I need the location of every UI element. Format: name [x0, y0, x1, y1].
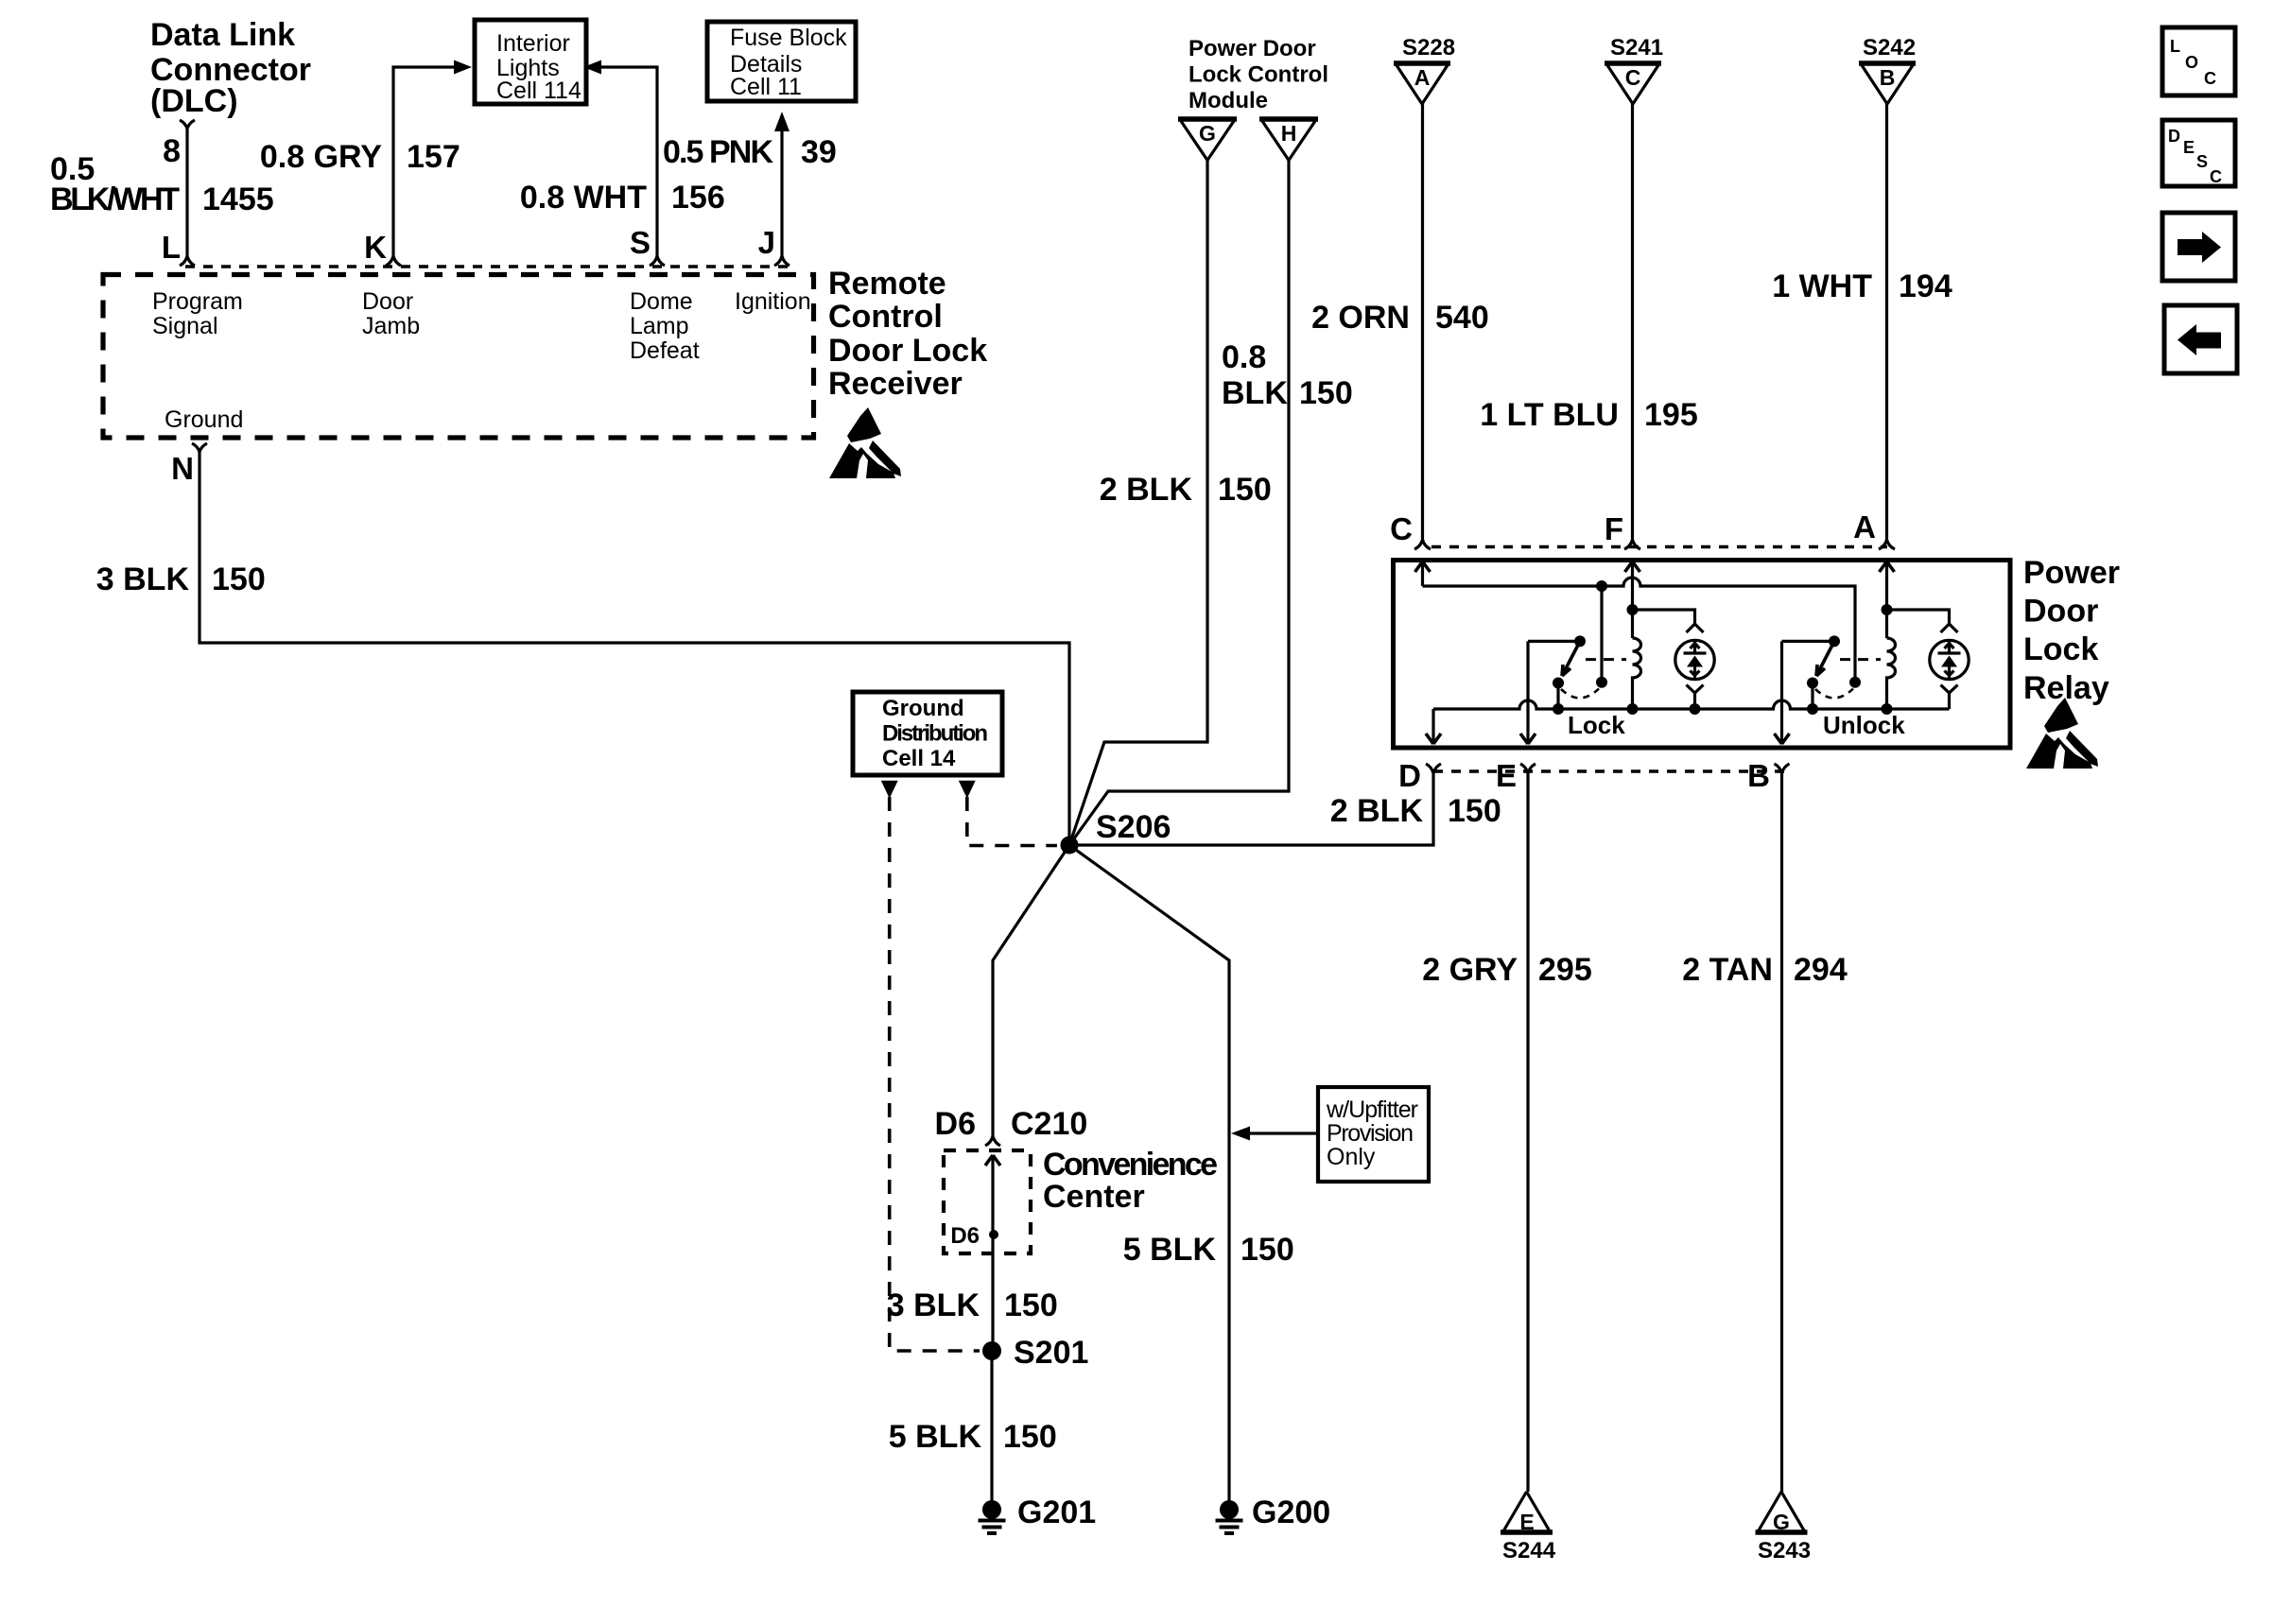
in-line connector dashed row at relay top [1431, 545, 1887, 548]
svg-text:Program: Program [152, 288, 243, 315]
svg-text:O: O [2185, 53, 2198, 72]
node S206 splice dot [1061, 837, 1079, 855]
LOC icon box [2162, 27, 2235, 95]
svg-text:8: 8 [163, 133, 181, 169]
svg-text:295: 295 [1538, 952, 1592, 988]
lock diode internals [1684, 641, 1707, 680]
svg-text:BLK/WHT: BLK/WHT [50, 181, 180, 217]
svg-text:S228: S228 [1402, 35, 1455, 60]
unlock switch pivot dot [1829, 635, 1840, 647]
svg-text:C: C [2204, 69, 2216, 88]
svg-text:Interior: Interior [496, 30, 570, 57]
wire 2 BLK 150 from D to S206 [1069, 778, 1433, 845]
Convenience Center dashed box [944, 1150, 1031, 1253]
wire 1 LT BLU 195 from S241 to relay F [1631, 104, 1634, 536]
svg-text:294: 294 [1794, 952, 1848, 988]
right arrow icon box [2162, 213, 2235, 281]
connector triangle S228-A [1394, 60, 1450, 66]
connector chevron below lock diode [1687, 685, 1704, 710]
svg-text:Jamb: Jamb [362, 313, 420, 339]
dashed ground wire to S206 [967, 797, 1057, 846]
connector triangle H [1259, 116, 1318, 122]
connector fork at DLC pin 8 [180, 120, 195, 134]
dashed alternate-position arc lock [1561, 689, 1599, 699]
svg-text:B: B [1747, 758, 1770, 793]
svg-text:S201: S201 [1014, 1335, 1088, 1371]
arrowhead into Interior Lights right side [583, 60, 601, 75]
Remote Control Door Lock Receiver dashed box [103, 275, 814, 439]
wire 0.8 WHT 156 from S to Interior Lights [600, 67, 657, 252]
svg-text:L: L [162, 230, 181, 265]
splice dot D6 [989, 1230, 998, 1239]
junction dot F branch [1627, 604, 1639, 615]
junction dot unlock coil to bus [1882, 703, 1893, 715]
svg-text:D: D [1398, 758, 1421, 793]
connector fork L [180, 252, 195, 266]
wire 3 BLK 150 from N to S206 [200, 458, 1069, 838]
connector triangle S241-C [1605, 60, 1661, 66]
relay internal bus from C with hop over F wire [1423, 578, 1856, 677]
connector fork C210 [985, 1132, 1000, 1146]
svg-text:Lock: Lock [2023, 631, 2098, 667]
svg-text:Lock: Lock [1568, 711, 1625, 739]
svg-text:Provision: Provision [1327, 1120, 1414, 1147]
svg-text:Distribution: Distribution [882, 721, 988, 747]
connector fork relay C [1414, 536, 1431, 549]
svg-text:150: 150 [1241, 1232, 1294, 1268]
svg-text:L: L [2170, 37, 2180, 56]
connector triangle G S243 [1759, 1492, 1804, 1530]
svg-text:E: E [2183, 138, 2195, 157]
svg-text:(DLC): (DLC) [150, 83, 238, 119]
svg-text:39: 39 [801, 134, 837, 170]
svg-text:G: G [1199, 121, 1216, 146]
relay internal wire C down to bus [1421, 561, 1424, 586]
svg-text:Cell 14: Cell 14 [882, 746, 956, 771]
relay internal wire F down [1631, 561, 1634, 638]
lock switch arm with arrowhead [1562, 641, 1580, 676]
Ground Distribution box [853, 692, 1002, 775]
svg-text:0.5 PNK: 0.5 PNK [663, 134, 773, 170]
lock diode circle [1675, 640, 1714, 679]
svg-text:5 BLK: 5 BLK [1123, 1232, 1217, 1268]
svg-text:157: 157 [407, 139, 460, 175]
svg-text:S: S [630, 225, 651, 260]
stub unlock left contact to bus [1811, 683, 1813, 710]
svg-text:F: F [1605, 511, 1623, 546]
in-line connector dashed row at relay bottom [1433, 769, 1790, 772]
wire 2 GRY 295 from E to S244 [1526, 778, 1529, 1492]
wire unlock switch feed [1782, 640, 1835, 643]
w/Upfitter Provision Only box [1318, 1087, 1429, 1182]
svg-text:5 BLK: 5 BLK [889, 1419, 982, 1455]
svg-text:Module: Module [1189, 88, 1268, 113]
svg-text:2 BLK: 2 BLK [1330, 793, 1424, 829]
connector fork K [386, 252, 401, 266]
connector triangle E S244 [1504, 1492, 1550, 1530]
svg-text:w/Upfitter: w/Upfitter [1326, 1097, 1418, 1123]
svg-text:1455: 1455 [202, 181, 274, 217]
svg-text:Receiver: Receiver [828, 366, 963, 402]
svg-text:Door Lock: Door Lock [828, 333, 987, 369]
svg-text:2 GRY: 2 GRY [1422, 952, 1518, 988]
svg-text:J: J [758, 225, 775, 260]
wire 0.5 PNK 39 from J to Fuse Block [780, 130, 783, 252]
wire 2 ORN 540 from S228 to relay C [1421, 104, 1424, 536]
connector chevron below unlock diode [1941, 685, 1958, 710]
svg-text:150: 150 [1004, 1287, 1058, 1323]
in-line connector dashed row at receiver [185, 265, 790, 268]
wire 2 BLK 150 from G to S206 [1069, 161, 1207, 846]
dashed ground wire to S201 [890, 797, 980, 1351]
relay internal bottom bus with hops over E and B [1433, 700, 1950, 709]
DESC icon box [2162, 120, 2235, 186]
wire through Convenience Center with up arrow [991, 1155, 994, 1351]
connector fork relay D [1426, 764, 1441, 778]
unlock diode internals [1938, 641, 1961, 680]
svg-text:D6: D6 [950, 1223, 980, 1249]
svg-text:S: S [2196, 152, 2208, 171]
svg-text:D6: D6 [935, 1106, 976, 1142]
svg-text:Fuse Block: Fuse Block [730, 25, 847, 51]
svg-text:G200: G200 [1252, 1494, 1330, 1530]
relay B exit wire and arrow [1780, 641, 1783, 744]
wire 5 BLK 150 from S206 to G200 [1069, 845, 1229, 1501]
svg-text:150: 150 [1299, 375, 1353, 411]
connector triangle G [1178, 116, 1237, 122]
svg-text:C: C [2210, 167, 2222, 186]
svg-text:Ground: Ground [165, 406, 243, 433]
svg-text:Power Door: Power Door [1189, 36, 1316, 61]
svg-text:Convenience: Convenience [1043, 1147, 1218, 1183]
junction dot bus-to-lock-contact [1596, 580, 1607, 592]
svg-text:K: K [364, 230, 387, 265]
svg-text:Ground: Ground [882, 696, 964, 721]
wire 0.5 BLK/WHT 1455 from DLC to L [185, 134, 188, 252]
wire A to unlock diode [1887, 610, 1950, 624]
ESD sensitivity symbol at relay [2026, 698, 2098, 769]
unlock switch right contact [1849, 677, 1861, 688]
dashed linkage unlock switch to coil [1840, 658, 1881, 661]
svg-text:E: E [1496, 758, 1517, 793]
connector chevron above lock diode [1687, 624, 1704, 632]
svg-text:195: 195 [1644, 397, 1698, 433]
unlock relay coil [1887, 638, 1896, 709]
svg-text:2 TAN: 2 TAN [1682, 952, 1773, 988]
svg-text:S243: S243 [1758, 1538, 1811, 1564]
svg-text:150: 150 [1003, 1419, 1057, 1455]
svg-text:Door: Door [362, 288, 413, 315]
connector triangle S242-B [1859, 60, 1916, 66]
junction dot coil to bottom bus [1627, 703, 1639, 715]
svg-text:2 BLK: 2 BLK [1100, 472, 1193, 508]
svg-text:C210: C210 [1011, 1106, 1087, 1142]
connector fork relay A [1879, 536, 1895, 549]
wire 5 BLK 150 from S201 to G201 [990, 1351, 993, 1501]
lock relay coil [1633, 638, 1641, 709]
svg-text:150: 150 [1448, 793, 1501, 829]
svg-text:3 BLK: 3 BLK [96, 561, 190, 597]
svg-text:1 LT BLU: 1 LT BLU [1480, 397, 1619, 433]
Power Door Lock Relay box [1394, 561, 2011, 749]
connector fork relay E [1520, 764, 1536, 778]
svg-text:N: N [171, 451, 194, 486]
connector fork J [774, 252, 789, 266]
svg-text:0.8: 0.8 [1222, 339, 1266, 375]
svg-text:E: E [1519, 1510, 1534, 1534]
arrow from w/Upfitter box to 5 BLK wire [1248, 1132, 1318, 1134]
connector fork relay B [1775, 764, 1790, 778]
relay E exit wire and arrow [1526, 641, 1529, 744]
svg-text:Center: Center [1043, 1179, 1145, 1215]
arrow down from Ground Distribution left [881, 781, 898, 799]
connector fork relay F [1624, 536, 1640, 549]
svg-text:Unlock: Unlock [1823, 711, 1905, 739]
svg-text:150: 150 [212, 561, 266, 597]
lock switch right contact [1596, 677, 1607, 688]
svg-text:Lamp: Lamp [630, 313, 689, 339]
svg-text:A: A [1414, 65, 1431, 90]
Interior Lights box [475, 20, 586, 104]
svg-text:Control: Control [828, 299, 943, 335]
wire 0.8 BLK 150 from H to S206 [1069, 161, 1289, 846]
lock switch left contact [1553, 678, 1564, 689]
connector chevron above unlock diode [1941, 624, 1958, 632]
svg-text:G: G [1773, 1510, 1790, 1534]
arrowhead up into Fuse Block [774, 112, 789, 131]
relay D exit wire and arrow [1431, 709, 1434, 744]
svg-text:1 WHT: 1 WHT [1772, 268, 1872, 304]
svg-text:S244: S244 [1502, 1538, 1556, 1564]
svg-text:156: 156 [671, 180, 725, 216]
svg-text:S206: S206 [1096, 809, 1171, 845]
junction dot at bus unlock [1807, 703, 1818, 715]
connector fork N [192, 443, 207, 458]
junction dot at bus [1553, 703, 1564, 715]
svg-text:Cell 114: Cell 114 [496, 78, 581, 104]
wire 2 TAN 294 from B to S243 [1780, 778, 1783, 1492]
svg-text:A: A [1853, 510, 1876, 544]
svg-text:Only: Only [1327, 1144, 1376, 1170]
svg-text:S241: S241 [1610, 35, 1663, 60]
svg-text:Defeat: Defeat [630, 337, 700, 364]
relay internal arrow up at C [1415, 561, 1431, 572]
svg-text:Data Link: Data Link [150, 17, 295, 53]
connector fork S [650, 252, 665, 266]
splice dot S201 [982, 1341, 1001, 1360]
relay internal wire A down [1885, 561, 1888, 638]
wire 0.8 GRY 157 from K to Interior Lights [393, 67, 455, 252]
dashed alternate-position arc unlock [1815, 689, 1853, 699]
svg-text:3 BLK: 3 BLK [887, 1287, 980, 1323]
svg-text:Ignition: Ignition [735, 288, 811, 315]
stub lock left contact to bus [1556, 683, 1559, 710]
junction dot A branch [1882, 604, 1893, 615]
svg-text:Door: Door [2023, 594, 2098, 630]
svg-text:C: C [1390, 511, 1413, 546]
svg-text:Power: Power [2023, 555, 2120, 591]
svg-text:0.8 GRY: 0.8 GRY [260, 139, 382, 175]
svg-text:S242: S242 [1863, 35, 1916, 60]
unlock switch arm with arrowhead [1816, 641, 1834, 676]
dashed linkage lock switch to coil [1586, 658, 1626, 661]
wire lock switch feed [1528, 640, 1580, 643]
svg-text:Signal: Signal [152, 313, 218, 339]
arrow down from Ground Distribution right [959, 781, 976, 799]
svg-text:Dome: Dome [630, 288, 693, 315]
svg-text:Lock Control: Lock Control [1189, 62, 1328, 88]
svg-text:BLK: BLK [1222, 375, 1288, 411]
left arrow icon box [2164, 305, 2237, 373]
lock switch pivot dot [1574, 635, 1586, 647]
junction dot lock diode to bus [1690, 703, 1701, 715]
wire F to lock diode [1633, 610, 1695, 624]
wire 1 WHT 194 from S242 to relay A [1885, 104, 1888, 536]
relay internal arrow up at A [1880, 561, 1895, 572]
unlock diode circle [1930, 640, 1969, 679]
ESD sensitivity symbol [829, 407, 901, 478]
svg-text:2 ORN: 2 ORN [1311, 300, 1410, 336]
svg-text:B: B [1880, 65, 1896, 90]
ground G200 [1220, 1500, 1239, 1519]
svg-text:G201: G201 [1017, 1494, 1096, 1530]
svg-text:0.8 WHT: 0.8 WHT [520, 180, 647, 216]
svg-text:540: 540 [1435, 300, 1489, 336]
svg-text:150: 150 [1218, 472, 1272, 508]
svg-text:H: H [1281, 121, 1297, 146]
relay internal arrow up at F [1625, 561, 1640, 572]
svg-text:D: D [2168, 127, 2180, 146]
svg-text:Remote: Remote [828, 266, 946, 302]
svg-text:194: 194 [1899, 268, 1952, 304]
arrowhead into Interior Lights [454, 60, 472, 75]
ground G201 [982, 1500, 1001, 1519]
unlock switch left contact [1807, 678, 1818, 689]
Fuse Block Details box [707, 22, 856, 101]
wire lock right contact up to bus [1600, 586, 1603, 682]
wire 3 BLK 150 from S206 to C210 [993, 845, 1069, 1132]
svg-text:C: C [1625, 65, 1641, 90]
svg-text:Cell 11: Cell 11 [730, 74, 802, 100]
